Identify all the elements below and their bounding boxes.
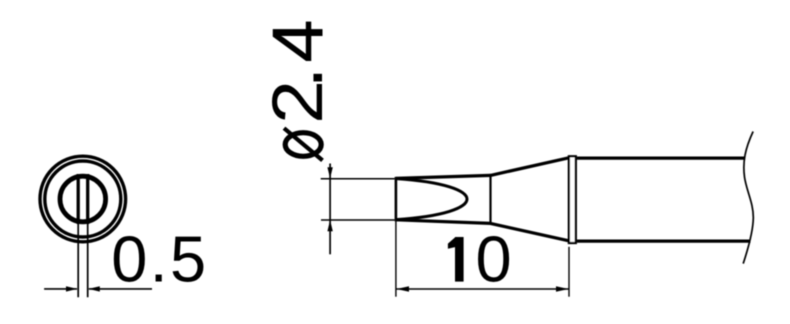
label dia 2.4: diameter symbol circle [285, 133, 321, 157]
arrow left (0.5) [66, 286, 77, 291]
svg-text:.: . [250, 67, 339, 89]
shaft top line [577, 156, 745, 159]
dimension line 10 [397, 288, 569, 290]
chisel top edge [396, 175, 491, 178]
extension line left (slot) [77, 224, 79, 298]
cone top edge [491, 158, 569, 176]
slot left edge [77, 174, 80, 224]
extension line right (slot) [87, 224, 89, 298]
junction line [489, 174, 491, 225]
dimension vline (dia 2.4) [329, 164, 331, 255]
dimension line 0.5 right tail [89, 288, 152, 290]
arrow left (10) [397, 286, 410, 291]
extension line below tip face [395, 221, 397, 296]
end view: inner circle (tip face) [60, 176, 106, 222]
extension line top (dia 2.4) [321, 178, 395, 180]
end view: second circle [45, 161, 121, 237]
arrow up (dia 2.4) [327, 220, 332, 231]
cone bottom edge [491, 223, 569, 240]
shaft bottom line [577, 239, 751, 242]
svg-text:4: 4 [259, 20, 338, 63]
side view: tip face [395, 177, 398, 222]
label dia 2.4: diameter symbol slash [284, 128, 323, 160]
svg-text:0: 0 [476, 223, 512, 296]
ground-face curve [397, 179, 468, 220]
collar ring [569, 156, 576, 243]
slot right edge [86, 174, 89, 224]
svg-text:0.5: 0.5 [111, 223, 208, 296]
break line [743, 132, 753, 264]
extension line bottom (dia 2.4) [321, 219, 395, 221]
end view: outer circle [40, 156, 126, 242]
label 10: digit 1 stem [455, 237, 464, 282]
arrow down (dia 2.4) [327, 167, 332, 178]
arrow right (0.5) [89, 286, 100, 291]
extension line collar [568, 247, 570, 297]
arrow right (10) [556, 286, 569, 291]
chisel bottom edge [396, 220, 491, 224]
dimension line 0.5 left tail [44, 288, 77, 290]
label 10: digit 1 flag [448, 237, 456, 249]
